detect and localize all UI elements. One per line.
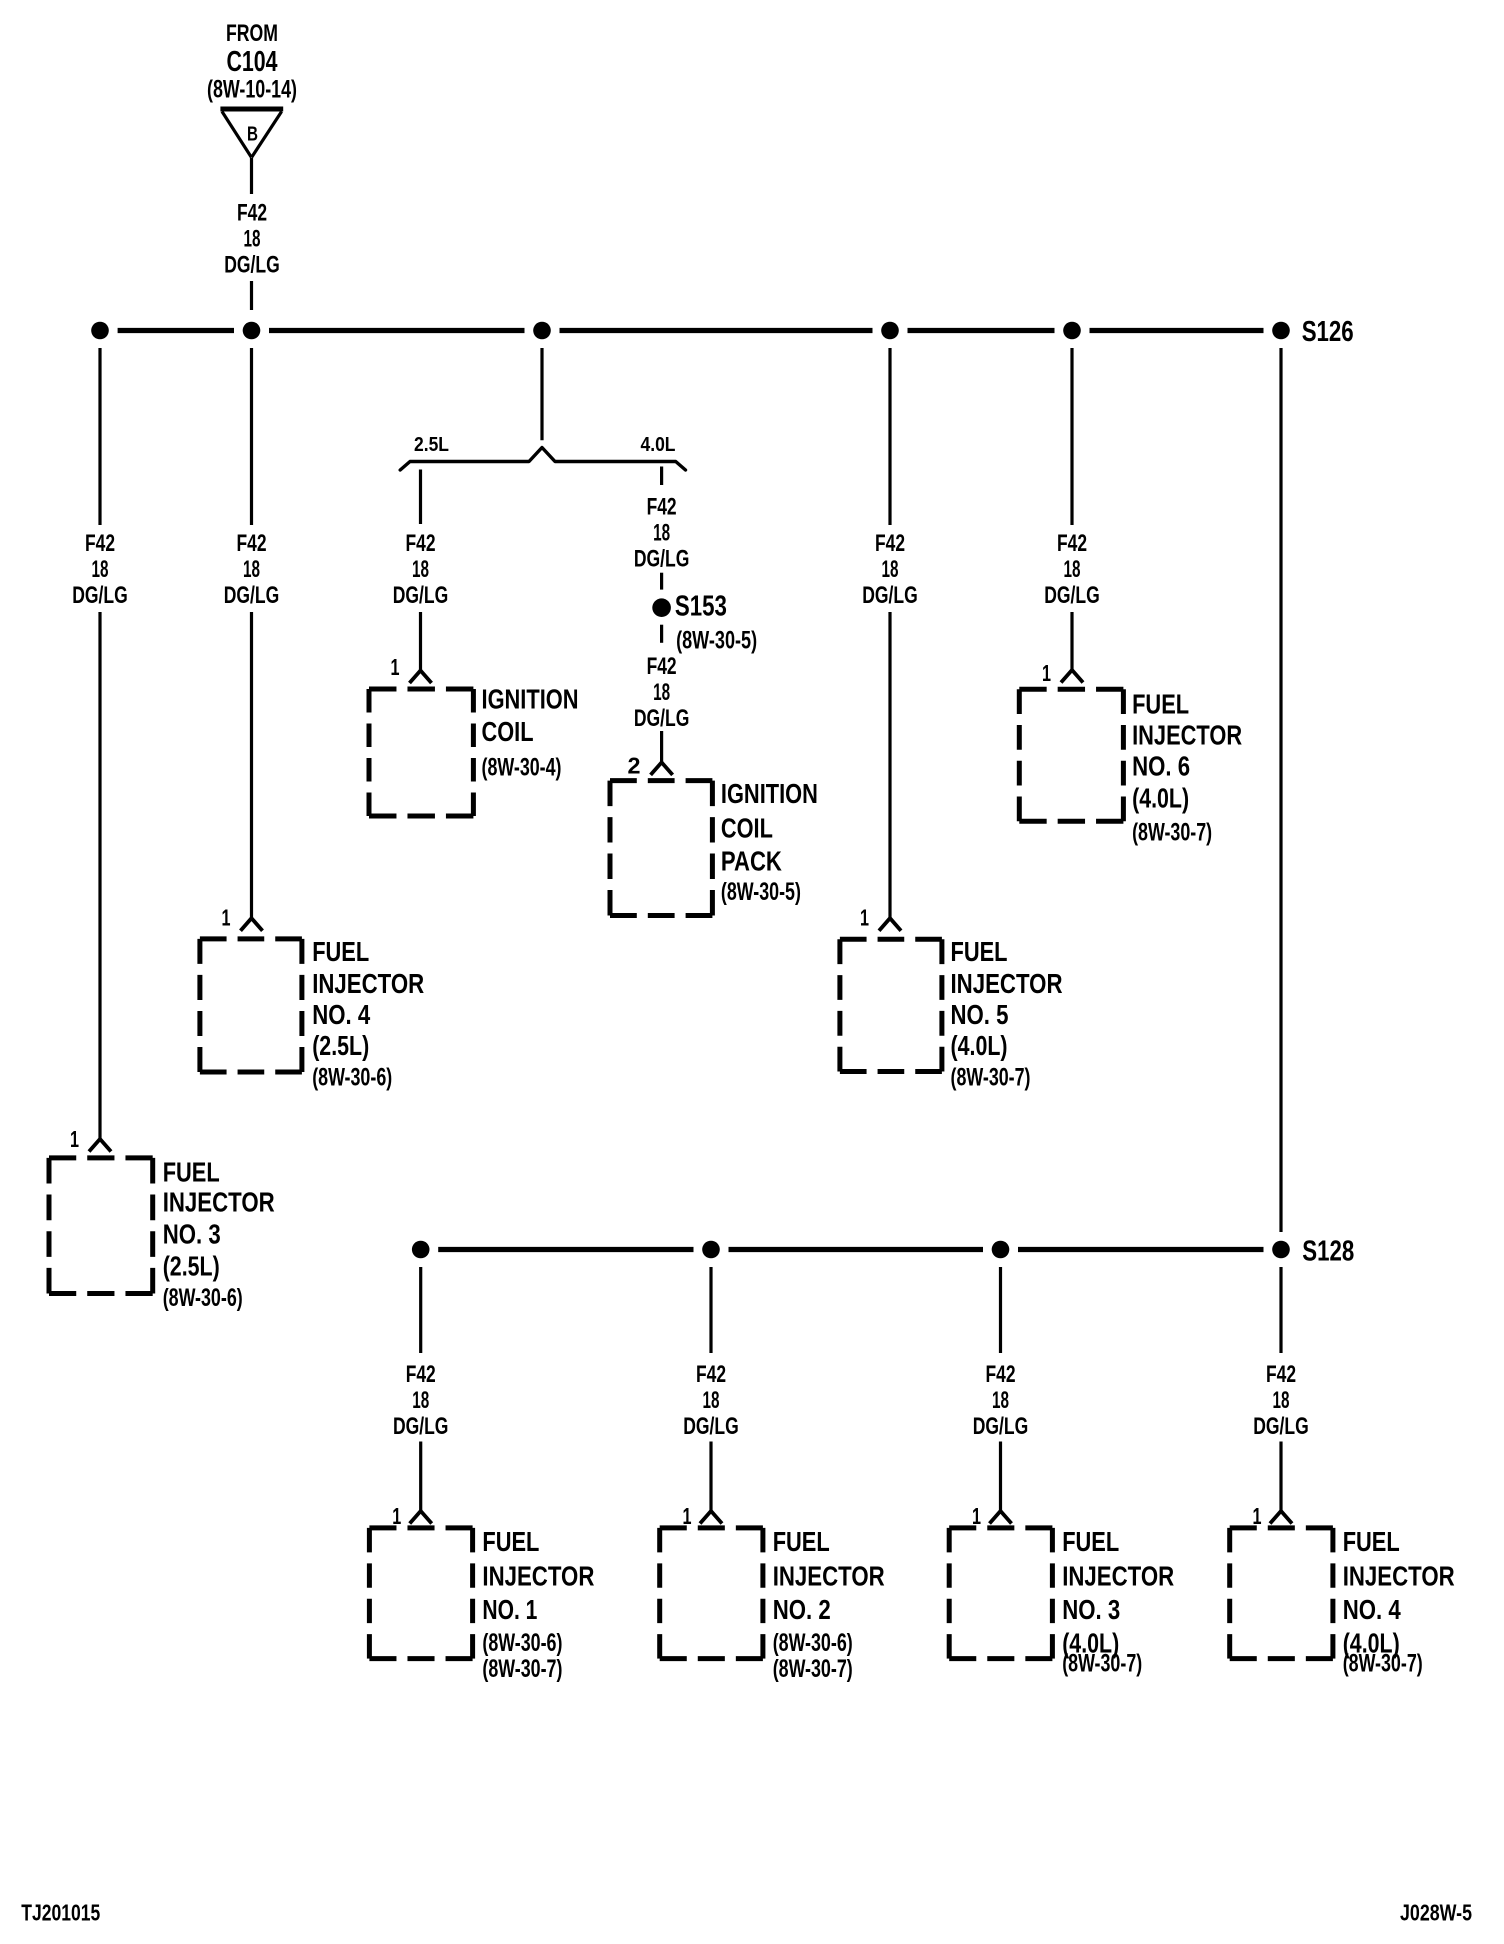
svg-text:18: 18 bbox=[1273, 1387, 1290, 1414]
svg-text:NO. 6: NO. 6 bbox=[1132, 750, 1190, 781]
svg-text:18: 18 bbox=[244, 226, 261, 253]
svg-text:INJECTOR: INJECTOR bbox=[312, 968, 424, 999]
svg-text:18: 18 bbox=[992, 1387, 1009, 1414]
svg-text:(2.5L): (2.5L) bbox=[312, 1030, 369, 1061]
svg-text:DG/LG: DG/LG bbox=[634, 546, 690, 573]
svg-text:F42: F42 bbox=[986, 1361, 1016, 1388]
svg-text:NO. 4: NO. 4 bbox=[1343, 1594, 1401, 1625]
svg-text:18: 18 bbox=[653, 520, 670, 547]
svg-text:(8W-30-7): (8W-30-7) bbox=[773, 1655, 853, 1683]
svg-text:1: 1 bbox=[222, 905, 231, 931]
svg-text:FUEL: FUEL bbox=[163, 1157, 220, 1188]
svg-text:DG/LG: DG/LG bbox=[393, 1413, 449, 1440]
svg-text:F42: F42 bbox=[237, 530, 267, 557]
svg-text:J028W-5: J028W-5 bbox=[1400, 1900, 1472, 1926]
svg-text:NO. 3: NO. 3 bbox=[1062, 1594, 1120, 1625]
svg-text:NO. 1: NO. 1 bbox=[482, 1594, 537, 1625]
svg-text:(8W-30-7): (8W-30-7) bbox=[951, 1064, 1031, 1092]
svg-text:F42: F42 bbox=[1057, 530, 1087, 557]
svg-text:COIL: COIL bbox=[482, 716, 534, 747]
svg-text:1: 1 bbox=[972, 1503, 981, 1529]
svg-text:4.0L: 4.0L bbox=[641, 434, 676, 456]
svg-text:F42: F42 bbox=[406, 530, 436, 557]
svg-text:NO. 2: NO. 2 bbox=[773, 1594, 831, 1625]
svg-text:IGNITION: IGNITION bbox=[482, 684, 579, 715]
svg-text:NO. 3: NO. 3 bbox=[163, 1218, 221, 1249]
svg-text:DG/LG: DG/LG bbox=[393, 582, 449, 609]
svg-text:(8W-30-7): (8W-30-7) bbox=[1132, 818, 1212, 846]
svg-text:1: 1 bbox=[683, 1503, 692, 1529]
svg-text:(8W-30-6): (8W-30-6) bbox=[312, 1064, 392, 1092]
svg-text:1: 1 bbox=[70, 1126, 79, 1152]
svg-text:FUEL: FUEL bbox=[1132, 689, 1189, 720]
svg-text:INJECTOR: INJECTOR bbox=[1343, 1560, 1455, 1591]
svg-text:(8W-30-7): (8W-30-7) bbox=[482, 1655, 562, 1683]
svg-text:18: 18 bbox=[703, 1387, 720, 1414]
svg-text:DG/LG: DG/LG bbox=[224, 582, 280, 609]
svg-text:(2.5L): (2.5L) bbox=[163, 1251, 220, 1282]
svg-text:FROM: FROM bbox=[226, 20, 278, 47]
svg-text:DG/LG: DG/LG bbox=[973, 1413, 1029, 1440]
svg-text:IGNITION: IGNITION bbox=[721, 778, 818, 809]
svg-text:F42: F42 bbox=[875, 530, 905, 557]
svg-text:NO. 5: NO. 5 bbox=[951, 999, 1009, 1030]
svg-text:S126: S126 bbox=[1302, 316, 1354, 348]
svg-text:INJECTOR: INJECTOR bbox=[773, 1560, 885, 1591]
svg-text:DG/LG: DG/LG bbox=[862, 582, 918, 609]
svg-text:INJECTOR: INJECTOR bbox=[482, 1560, 594, 1591]
svg-text:INJECTOR: INJECTOR bbox=[1132, 719, 1242, 750]
svg-text:TJ201015: TJ201015 bbox=[21, 1900, 100, 1926]
svg-text:FUEL: FUEL bbox=[1343, 1526, 1400, 1557]
svg-text:(4.0L): (4.0L) bbox=[1132, 783, 1189, 814]
svg-text:B: B bbox=[247, 124, 258, 146]
svg-text:F42: F42 bbox=[647, 494, 677, 521]
svg-text:F42: F42 bbox=[237, 200, 267, 227]
svg-text:(8W-30-7): (8W-30-7) bbox=[1343, 1650, 1423, 1678]
svg-text:S128: S128 bbox=[1302, 1236, 1354, 1268]
svg-text:DG/LG: DG/LG bbox=[72, 582, 128, 609]
svg-text:18: 18 bbox=[882, 556, 899, 583]
svg-text:(8W-30-5): (8W-30-5) bbox=[676, 627, 757, 655]
svg-text:1: 1 bbox=[1042, 660, 1051, 686]
svg-text:18: 18 bbox=[653, 679, 670, 706]
svg-text:S153: S153 bbox=[675, 591, 727, 623]
svg-text:(8W-30-7): (8W-30-7) bbox=[1062, 1650, 1142, 1678]
svg-text:DG/LG: DG/LG bbox=[634, 705, 690, 732]
svg-text:F42: F42 bbox=[1266, 1361, 1296, 1388]
svg-text:(8W-10-14): (8W-10-14) bbox=[207, 76, 297, 104]
svg-text:PACK: PACK bbox=[721, 846, 782, 877]
svg-text:(8W-30-6): (8W-30-6) bbox=[773, 1629, 853, 1657]
svg-text:NO. 4: NO. 4 bbox=[312, 999, 370, 1030]
svg-text:2: 2 bbox=[628, 752, 641, 778]
svg-text:F42: F42 bbox=[406, 1361, 436, 1388]
svg-text:18: 18 bbox=[92, 556, 109, 583]
svg-text:FUEL: FUEL bbox=[312, 936, 369, 967]
svg-text:(8W-30-5): (8W-30-5) bbox=[721, 878, 801, 906]
svg-text:18: 18 bbox=[243, 556, 260, 583]
svg-text:(8W-30-6): (8W-30-6) bbox=[482, 1629, 562, 1657]
svg-text:INJECTOR: INJECTOR bbox=[163, 1186, 275, 1217]
svg-text:(4.0L): (4.0L) bbox=[951, 1030, 1008, 1061]
svg-text:(8W-30-6): (8W-30-6) bbox=[163, 1284, 243, 1312]
svg-text:DG/LG: DG/LG bbox=[683, 1413, 739, 1440]
svg-text:1: 1 bbox=[860, 905, 869, 931]
svg-text:INJECTOR: INJECTOR bbox=[1062, 1560, 1174, 1591]
svg-text:FUEL: FUEL bbox=[1062, 1526, 1119, 1557]
svg-text:FUEL: FUEL bbox=[482, 1526, 539, 1557]
svg-text:(8W-30-4): (8W-30-4) bbox=[482, 754, 562, 782]
svg-text:F42: F42 bbox=[647, 653, 677, 680]
svg-text:DG/LG: DG/LG bbox=[224, 252, 280, 279]
svg-text:COIL: COIL bbox=[721, 813, 773, 844]
svg-text:DG/LG: DG/LG bbox=[1253, 1413, 1309, 1440]
svg-text:FUEL: FUEL bbox=[773, 1526, 830, 1557]
svg-text:F42: F42 bbox=[696, 1361, 726, 1388]
svg-text:18: 18 bbox=[412, 556, 429, 583]
svg-text:INJECTOR: INJECTOR bbox=[951, 968, 1063, 999]
svg-text:18: 18 bbox=[412, 1387, 429, 1414]
svg-text:C104: C104 bbox=[227, 46, 278, 78]
svg-text:DG/LG: DG/LG bbox=[1044, 582, 1100, 609]
svg-text:18: 18 bbox=[1064, 556, 1081, 583]
svg-text:1: 1 bbox=[391, 654, 400, 680]
svg-text:F42: F42 bbox=[85, 530, 115, 557]
svg-text:2.5L: 2.5L bbox=[414, 434, 449, 456]
svg-text:1: 1 bbox=[1253, 1503, 1262, 1529]
svg-text:1: 1 bbox=[392, 1503, 401, 1529]
svg-text:FUEL: FUEL bbox=[951, 936, 1008, 967]
